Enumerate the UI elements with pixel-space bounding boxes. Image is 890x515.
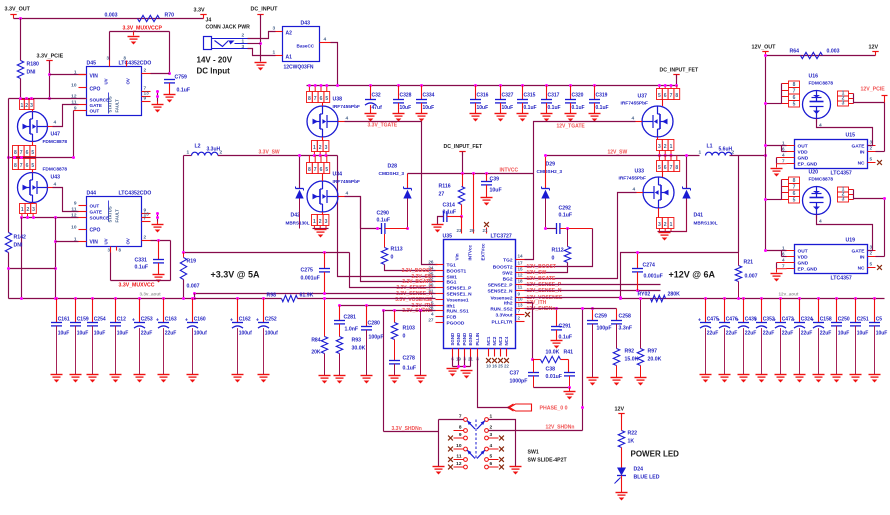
svg-text:D44: D44 [87, 191, 97, 197]
svg-text:C37: C37 [510, 371, 520, 377]
svg-text:4: 4 [782, 152, 785, 157]
svg-text:2: 2 [144, 68, 147, 74]
svg-text:5: 5 [31, 150, 34, 156]
svg-text:C759: C759 [175, 75, 188, 81]
svg-text:DC_INPUT_FET: DC_INPUT_FET [444, 144, 483, 150]
svg-text:+: + [717, 318, 720, 324]
svg-text:+: + [156, 318, 159, 324]
svg-text:2: 2 [870, 251, 873, 256]
svg-text:0.1uF: 0.1uF [177, 88, 191, 94]
svg-text:6: 6 [26, 163, 29, 169]
svg-text:R98: R98 [267, 293, 277, 299]
svg-text:22uF: 22uF [745, 331, 757, 337]
svg-text:3: 3 [242, 44, 245, 50]
svg-text:13: 13 [518, 303, 524, 308]
svg-text:C252: C252 [265, 317, 277, 323]
svg-text:+: + [754, 318, 757, 324]
svg-text:STATUS: STATUS [108, 206, 113, 222]
svg-text:R64: R64 [790, 49, 800, 55]
svg-text:0.1uF: 0.1uF [548, 105, 561, 111]
svg-text:7: 7 [670, 93, 673, 99]
svg-text:12V_PCIE: 12V_PCIE [861, 87, 886, 93]
svg-text:GATE: GATE [90, 210, 102, 215]
svg-text:DC_INPUT_FET: DC_INPUT_FET [660, 68, 699, 74]
svg-text:30.0K: 30.0K [352, 346, 366, 352]
svg-text:5: 5 [793, 102, 796, 108]
svg-text:FCB: FCB [447, 314, 457, 320]
svg-text:6: 6 [782, 146, 785, 151]
svg-text:12V_SHDNn: 12V_SHDNn [546, 425, 575, 431]
svg-text:6: 6 [664, 165, 667, 171]
svg-text:GND: GND [798, 155, 809, 161]
svg-text:9: 9 [459, 432, 462, 438]
svg-text:12: 12 [71, 212, 77, 218]
svg-text:INTVCC: INTVCC [500, 168, 519, 174]
svg-text:+: + [698, 318, 701, 324]
svg-text:OV: OV [126, 238, 131, 244]
svg-text:0.1uF: 0.1uF [559, 335, 573, 341]
svg-text:10uF: 10uF [477, 105, 489, 111]
svg-text:+: + [736, 318, 739, 324]
svg-text:100pF: 100pF [597, 326, 612, 332]
svg-text:3.3V_MUXVCC: 3.3V_MUXVCC [119, 283, 155, 289]
svg-text:U35: U35 [443, 234, 453, 240]
svg-text:5.6uH: 5.6uH [719, 147, 733, 153]
svg-text:22: 22 [504, 364, 509, 369]
svg-text:IN: IN [860, 149, 865, 155]
svg-text:2: 2 [664, 222, 667, 228]
svg-text:6: 6 [26, 150, 29, 156]
svg-text:5: 5 [490, 454, 493, 460]
svg-text:+: + [185, 318, 188, 324]
svg-text:C317: C317 [548, 93, 560, 99]
svg-text:NC3: NC3 [498, 336, 503, 345]
svg-text:11: 11 [71, 206, 76, 212]
svg-text:DNI: DNI [14, 243, 23, 249]
svg-text:2: 2 [25, 103, 28, 109]
svg-text:4: 4 [819, 219, 822, 225]
svg-text:DC_INPUT: DC_INPUT [251, 7, 279, 13]
svg-text:TG1: TG1 [447, 262, 457, 268]
svg-text:61.9K: 61.9K [300, 293, 314, 299]
svg-text:6: 6 [320, 96, 323, 102]
svg-text:7: 7 [144, 216, 147, 222]
svg-text:STATUS: STATUS [108, 96, 113, 112]
svg-text:Vosense1: Vosense1 [447, 297, 469, 303]
svg-text:C38: C38 [546, 367, 556, 373]
svg-text:12V_OUT: 12V_OUT [752, 45, 777, 51]
svg-text:1: 1 [313, 219, 316, 225]
svg-text:10uF: 10uF [502, 105, 514, 111]
svg-text:OUT: OUT [90, 204, 100, 209]
svg-text:PGND: PGND [456, 333, 461, 346]
svg-text:1: 1 [313, 145, 316, 151]
svg-text:3: 3 [325, 145, 328, 151]
svg-text:OV: OV [126, 78, 131, 84]
svg-text:UV: UV [104, 78, 109, 84]
svg-text:SENSE1_P: SENSE1_P [447, 285, 473, 291]
svg-text:0.003: 0.003 [827, 49, 840, 55]
svg-text:1: 1 [782, 140, 785, 145]
svg-text:47uf: 47uf [372, 105, 383, 111]
svg-text:15: 15 [518, 267, 524, 272]
svg-text:10uF: 10uF [857, 331, 869, 337]
svg-text:C5: C5 [876, 317, 883, 323]
svg-text:0: 0 [552, 256, 555, 262]
svg-text:SW2: SW2 [502, 270, 513, 276]
svg-text:20K: 20K [311, 350, 321, 356]
svg-text:4: 4 [782, 257, 785, 262]
svg-text:5: 5 [658, 93, 661, 99]
svg-text:8: 8 [459, 425, 462, 431]
svg-text:CPO: CPO [90, 228, 101, 234]
svg-text:12V_SENSE_N: 12V_SENSE_N [527, 288, 562, 294]
svg-text:25: 25 [498, 364, 503, 369]
svg-text:SENSE2_P: SENSE2_P [488, 282, 514, 288]
svg-text:INTVcc: INTVcc [468, 244, 473, 260]
svg-text:7: 7 [314, 96, 317, 102]
svg-text:4: 4 [54, 120, 57, 126]
svg-text:C160: C160 [194, 317, 206, 323]
svg-text:0.001uF: 0.001uF [644, 274, 663, 280]
svg-text:1: 1 [187, 150, 190, 156]
svg-text:21: 21 [483, 228, 488, 233]
svg-text:3.3V_SW: 3.3V_SW [259, 150, 280, 156]
svg-text:0.1uF: 0.1uF [524, 105, 537, 111]
svg-text:+: + [792, 318, 795, 324]
svg-text:L2: L2 [195, 144, 201, 150]
svg-text:4: 4 [54, 182, 57, 188]
svg-text:R142: R142 [14, 235, 27, 241]
svg-text:0.1uF: 0.1uF [377, 218, 391, 224]
svg-text:7: 7 [20, 163, 23, 169]
svg-text:R22: R22 [628, 431, 638, 437]
svg-text:4: 4 [633, 187, 636, 193]
svg-text:OUT: OUT [90, 109, 100, 114]
svg-text:R41: R41 [564, 350, 574, 356]
svg-text:EP_GND: EP_GND [798, 266, 818, 272]
svg-text:22uF: 22uF [801, 331, 813, 337]
svg-text:NC2: NC2 [492, 336, 497, 345]
svg-text:0.1uF: 0.1uF [135, 265, 149, 271]
svg-text:7: 7 [670, 165, 673, 171]
svg-text:C253: C253 [141, 317, 153, 323]
svg-text:8: 8 [14, 163, 17, 169]
svg-text:3: 3 [842, 101, 845, 107]
svg-text:27: 27 [439, 192, 445, 198]
svg-text:BOOST1: BOOST1 [447, 268, 467, 274]
svg-text:12V: 12V [615, 407, 625, 413]
svg-text:C331: C331 [135, 258, 148, 264]
svg-text:0.01uF: 0.01uF [546, 374, 562, 380]
svg-text:6: 6 [320, 167, 323, 173]
svg-text:IRF7455PbF: IRF7455PbF [621, 101, 649, 107]
svg-text:5: 5 [325, 96, 328, 102]
svg-text:DC Input: DC Input [197, 67, 231, 76]
svg-text:C258: C258 [619, 314, 632, 320]
svg-text:U16: U16 [809, 74, 819, 80]
svg-text:10uF: 10uF [58, 331, 70, 337]
svg-text:FDMC8878: FDMC8878 [809, 177, 834, 183]
svg-text:26: 26 [428, 259, 434, 264]
svg-text:R103: R103 [403, 326, 416, 332]
svg-text:NC: NC [858, 265, 865, 271]
svg-text:0.003: 0.003 [105, 13, 118, 19]
svg-text:IRF7455PbF: IRF7455PbF [619, 176, 647, 182]
svg-text:R92: R92 [625, 349, 635, 355]
svg-text:C316: C316 [477, 93, 489, 99]
svg-text:IRF7455PbF: IRF7455PbF [333, 104, 361, 110]
svg-text:10uF: 10uF [423, 105, 435, 111]
svg-text:GATE: GATE [852, 248, 866, 254]
svg-text:BG1: BG1 [447, 279, 457, 285]
svg-text:VIN: VIN [90, 240, 99, 246]
svg-text:C162: C162 [239, 317, 251, 323]
svg-text:3: 3 [658, 222, 661, 228]
svg-text:7: 7 [518, 309, 521, 314]
svg-text:R93: R93 [352, 338, 362, 344]
svg-text:16: 16 [492, 364, 497, 369]
svg-text:4: 4 [346, 116, 349, 122]
svg-text:NC1: NC1 [486, 336, 491, 345]
svg-text:0.001uF: 0.001uF [301, 276, 320, 282]
svg-text:2: 2 [319, 145, 322, 151]
svg-text:C281: C281 [344, 315, 357, 321]
svg-text:10: 10 [486, 364, 491, 369]
svg-text:9: 9 [144, 96, 147, 102]
svg-text:3: 3 [325, 219, 328, 225]
svg-text:SW SLIDE-4P2T: SW SLIDE-4P2T [528, 458, 568, 464]
svg-text:10uF: 10uF [117, 331, 129, 337]
svg-text:22uF: 22uF [707, 331, 719, 337]
svg-text:C315: C315 [524, 93, 536, 99]
svg-text:D24: D24 [634, 467, 644, 473]
svg-text:3.3V_TGATE: 3.3V_TGATE [368, 123, 398, 129]
svg-text:5: 5 [870, 157, 873, 162]
svg-text:2: 2 [27, 207, 30, 213]
svg-text:10uF: 10uF [876, 331, 888, 337]
svg-text:L1: L1 [707, 144, 713, 150]
svg-text:18: 18 [518, 279, 524, 284]
svg-text:D45: D45 [87, 61, 97, 67]
svg-text:12V_SW: 12V_SW [608, 150, 628, 156]
svg-text:2: 2 [242, 33, 245, 39]
svg-text:3.3nF: 3.3nF [619, 326, 633, 332]
svg-text:NC4: NC4 [504, 336, 509, 345]
svg-text:BG2: BG2 [503, 276, 513, 282]
svg-text:3.3V_SHDNn: 3.3V_SHDNn [392, 426, 422, 432]
svg-text:C158: C158 [820, 317, 832, 323]
svg-text:MBRS130L: MBRS130L [286, 221, 310, 226]
svg-text:C159: C159 [77, 317, 89, 323]
svg-text:11: 11 [518, 285, 523, 290]
svg-text:1: 1 [670, 222, 673, 228]
svg-text:0.1uF: 0.1uF [596, 105, 609, 111]
svg-text:R19: R19 [187, 259, 197, 265]
svg-text:1: 1 [670, 144, 673, 150]
svg-text:C334: C334 [423, 93, 435, 99]
svg-text:LTC3727: LTC3727 [491, 234, 512, 240]
svg-text:R180: R180 [27, 62, 40, 68]
svg-text:0.1uF: 0.1uF [572, 105, 585, 111]
svg-text:C290: C290 [377, 211, 390, 217]
svg-text:Vin: Vin [455, 253, 460, 260]
svg-text:CPO: CPO [90, 87, 101, 93]
svg-text:1K: 1K [628, 439, 635, 445]
svg-text:100uf: 100uf [239, 331, 252, 337]
svg-text:14: 14 [518, 254, 524, 259]
svg-text:27: 27 [428, 317, 434, 322]
svg-text:SOURCE: SOURCE [90, 216, 110, 221]
svg-text:9: 9 [74, 200, 77, 206]
svg-text:SOURCE: SOURCE [90, 98, 110, 103]
svg-text:10.0K: 10.0K [546, 350, 560, 356]
svg-text:2: 2 [220, 150, 223, 156]
svg-text:D28: D28 [388, 164, 398, 170]
svg-text:+3.3V @ 5A: +3.3V @ 5A [211, 270, 261, 280]
svg-text:0.1uF: 0.1uF [559, 213, 573, 219]
svg-text:C161: C161 [58, 317, 70, 323]
svg-text:PLLFLTR: PLLFLTR [492, 319, 513, 325]
svg-text:15.0K: 15.0K [625, 357, 639, 363]
svg-text:BOOST2: BOOST2 [493, 264, 513, 270]
svg-text:D41: D41 [694, 213, 704, 219]
svg-text:8: 8 [308, 167, 311, 173]
svg-text:GATE: GATE [852, 143, 866, 149]
svg-text:0: 0 [403, 334, 406, 340]
svg-text:3: 3 [658, 144, 661, 150]
svg-text:BLUE LED: BLUE LED [634, 475, 660, 481]
svg-text:3.3Vout: 3.3Vout [496, 312, 513, 318]
svg-text:C278: C278 [403, 356, 416, 362]
svg-text:RY02: RY02 [638, 292, 651, 298]
svg-text:D29: D29 [546, 162, 556, 168]
svg-text:1: 1 [273, 50, 276, 56]
svg-text:12: 12 [518, 273, 524, 278]
svg-text:20: 20 [470, 228, 475, 233]
svg-text:LTC4357: LTC4357 [831, 276, 852, 282]
svg-text:UV: UV [104, 238, 109, 244]
svg-text:12V_TGATE: 12V_TGATE [557, 124, 586, 130]
svg-text:10uF: 10uF [490, 188, 502, 194]
svg-text:BaseCC: BaseCC [297, 44, 315, 49]
svg-text:3: 3 [32, 207, 35, 213]
svg-text:6: 6 [490, 461, 493, 467]
svg-text:EGND: EGND [468, 333, 473, 346]
svg-text:OUT: OUT [798, 248, 808, 254]
svg-text:C250: C250 [838, 317, 850, 323]
svg-text:10: 10 [71, 224, 77, 230]
svg-text:CMDSH2_3: CMDSH2_3 [537, 169, 563, 175]
svg-text:R113: R113 [391, 247, 403, 253]
svg-text:8: 8 [675, 165, 678, 171]
svg-text:U37: U37 [638, 94, 648, 100]
svg-text:2: 2 [319, 219, 322, 225]
svg-text:PGOOD: PGOOD [447, 320, 465, 326]
svg-text:C274: C274 [643, 263, 656, 269]
svg-text:C251: C251 [857, 317, 869, 323]
svg-text:1: 1 [490, 414, 493, 420]
svg-text:C319: C319 [596, 93, 608, 99]
svg-text:3.3V_MUXVCCP: 3.3V_MUXVCCP [123, 26, 163, 32]
svg-text:100pF: 100pF [369, 335, 384, 341]
svg-text:1: 1 [21, 103, 24, 109]
svg-text:U47: U47 [51, 132, 61, 138]
svg-text:1: 1 [782, 245, 785, 250]
svg-text:3.3V_SHDNn: 3.3V_SHDNn [402, 308, 432, 314]
svg-text:0: 0 [391, 255, 394, 261]
svg-text:2: 2 [144, 235, 147, 241]
svg-text:U19: U19 [846, 238, 856, 244]
svg-text:J4: J4 [206, 18, 212, 24]
svg-text:NC: NC [858, 160, 865, 166]
svg-text:2: 2 [518, 316, 521, 321]
svg-text:10: 10 [456, 443, 462, 449]
svg-text:10: 10 [71, 82, 77, 88]
svg-text:22uF: 22uF [165, 331, 177, 337]
svg-text:0.1uF: 0.1uF [403, 366, 417, 372]
svg-text:22uF: 22uF [820, 331, 832, 337]
svg-text:VIN: VIN [90, 74, 99, 80]
svg-text:6: 6 [664, 93, 667, 99]
svg-text:R116: R116 [439, 184, 451, 190]
svg-text:C163: C163 [165, 317, 177, 323]
svg-text:12CWQ03FN: 12CWQ03FN [284, 65, 314, 71]
svg-text:C12: C12 [117, 317, 126, 323]
svg-text:7: 7 [314, 167, 317, 173]
svg-text:2: 2 [870, 146, 873, 151]
svg-text:VDD: VDD [798, 149, 809, 155]
svg-text:R70: R70 [165, 13, 175, 19]
svg-text:7: 7 [782, 158, 785, 163]
svg-text:17: 17 [518, 261, 524, 266]
svg-text:10: 10 [518, 297, 524, 302]
svg-text:C280: C280 [368, 321, 381, 327]
svg-text:1000pF: 1000pF [510, 379, 528, 385]
svg-text:4: 4 [490, 443, 493, 449]
svg-text:R21: R21 [744, 260, 754, 266]
svg-text:10uF: 10uF [400, 105, 412, 111]
svg-text:+: + [811, 318, 814, 324]
svg-text:1.0nF: 1.0nF [345, 327, 359, 333]
svg-text:IRF7455PbF: IRF7455PbF [333, 179, 361, 185]
svg-text:22uF: 22uF [141, 331, 153, 337]
svg-text:POWER LED: POWER LED [631, 450, 680, 459]
svg-text:U34: U34 [333, 172, 343, 178]
svg-text:3.3V_OUT: 3.3V_OUT [5, 7, 31, 13]
svg-text:D42: D42 [291, 213, 301, 219]
svg-text:OUT: OUT [798, 143, 808, 149]
svg-text:A2: A2 [286, 31, 293, 37]
svg-text:1: 1 [21, 207, 24, 213]
svg-text:6: 6 [782, 251, 785, 256]
svg-text:4: 4 [324, 37, 327, 43]
svg-text:LTC4352CDO: LTC4352CDO [119, 191, 152, 197]
svg-text:22uF: 22uF [726, 331, 738, 337]
svg-text:R112: R112 [552, 248, 564, 254]
svg-text:SGND: SGND [450, 333, 455, 346]
svg-text:3: 3 [273, 26, 276, 32]
svg-text:Ith2: Ith2 [504, 300, 513, 306]
svg-text:U20: U20 [809, 170, 819, 176]
svg-text:1: 1 [242, 39, 245, 45]
svg-text:8: 8 [675, 93, 678, 99]
svg-text:FDMC8878: FDMC8878 [43, 167, 68, 173]
svg-text:IN: IN [860, 254, 865, 260]
svg-text:U33: U33 [635, 169, 645, 175]
svg-text:C275: C275 [301, 268, 314, 274]
svg-text:CMDSH2_3: CMDSH2_3 [379, 171, 405, 177]
